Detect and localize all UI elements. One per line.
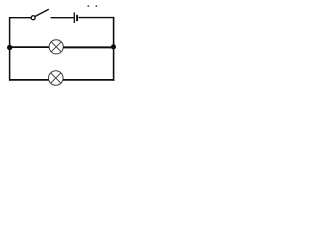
battery cell B1 [74,12,77,23]
lamp L1 (middle branch) [49,40,63,54]
wire: right rail vertical [113,17,115,81]
wire: battery to top-right corner [79,17,115,19]
node: left junction dot [7,45,12,50]
lamp L2 (bottom branch) [49,71,64,86]
wire: bottom branch left [9,79,49,81]
wire: switch to battery [51,17,74,19]
wire: left rail vertical [9,17,11,81]
stray ink dot left [87,5,89,7]
wire: top-left horizontal segment [9,17,31,19]
wire: middle branch right [63,46,113,48]
node: right junction dot [111,44,116,49]
wire: middle branch left [10,46,50,48]
wire: bottom branch right [63,79,114,81]
stray ink dot right [95,5,97,7]
switch S1 (open) [31,9,49,20]
